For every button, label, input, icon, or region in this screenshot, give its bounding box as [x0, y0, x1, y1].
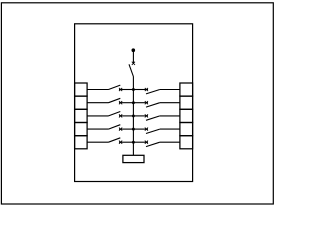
terminal box R2 — [180, 96, 193, 109]
switch S2L blade (open) — [109, 98, 121, 102]
switch S4L blade (open) — [109, 125, 121, 129]
wire R2b — [160, 102, 180, 104]
wire (supply drop) — [132, 50, 134, 63]
contact cross X1L — [119, 88, 122, 91]
switch S4R blade (open) — [146, 129, 160, 133]
wire R5b — [160, 141, 180, 143]
contact cross X3R — [145, 114, 148, 117]
contact cross X2R — [145, 101, 148, 104]
wire L2b — [119, 102, 133, 104]
terminal box R1 — [180, 83, 193, 96]
switch S1R blade (open) — [146, 90, 160, 94]
switch S3R blade (open) — [146, 116, 160, 120]
terminal box L2 — [75, 96, 88, 109]
terminal box L5 — [75, 136, 88, 149]
contact cross X0 (main disconnector fixed contact) — [132, 62, 135, 65]
wire R1a — [133, 89, 148, 91]
busbar (vertical bus) — [132, 77, 134, 156]
junction J1 — [132, 88, 135, 91]
wire L2a — [87, 102, 108, 104]
load box (bus termination) — [123, 155, 144, 162]
contact cross X5R — [145, 141, 148, 144]
contact cross X4R — [145, 128, 148, 131]
terminal box L1 — [75, 83, 88, 96]
junction J3 — [132, 114, 135, 117]
switch S3L blade (open) — [109, 112, 121, 116]
outer border frame — [1, 3, 273, 204]
switch S5L blade (open) — [109, 138, 121, 142]
wire L1a — [87, 89, 108, 91]
terminal box R5 — [180, 136, 193, 149]
terminal box L3 — [75, 109, 88, 122]
contact cross X5L — [119, 141, 122, 144]
switch S0 blade (main disconnector, open) — [129, 64, 133, 76]
switch S2R blade (open) — [146, 103, 160, 107]
wire R5a — [133, 141, 148, 143]
wire L5a — [87, 141, 108, 143]
contact cross X1R — [145, 88, 148, 91]
wire L4a — [87, 128, 108, 130]
wire R3b — [160, 115, 180, 117]
contact cross X4L — [119, 128, 122, 131]
switch S1L blade (open) — [109, 85, 121, 89]
terminal box L4 — [75, 123, 88, 136]
wire L3a — [87, 115, 108, 117]
junction J2 — [132, 101, 135, 104]
wire L1b — [119, 89, 133, 91]
switch S5R blade (open) — [146, 142, 160, 146]
contact cross X2L — [119, 101, 122, 104]
wire L4b — [119, 128, 133, 130]
enclosure (switchgear cubicle outline) — [75, 24, 193, 182]
wire R3a — [133, 115, 148, 117]
wire R2a — [133, 102, 148, 104]
junction J4 — [132, 128, 135, 131]
terminal box R4 — [180, 123, 193, 136]
node A (incoming supply dot) — [132, 48, 136, 52]
wire R4b — [160, 128, 180, 130]
contact cross X3L — [119, 114, 122, 117]
wire R1b — [160, 89, 180, 91]
wire R4a — [133, 128, 148, 130]
junction J5 — [132, 141, 135, 144]
wire L5b — [119, 141, 133, 143]
wire L3b — [119, 115, 133, 117]
terminal box R3 — [180, 109, 193, 122]
